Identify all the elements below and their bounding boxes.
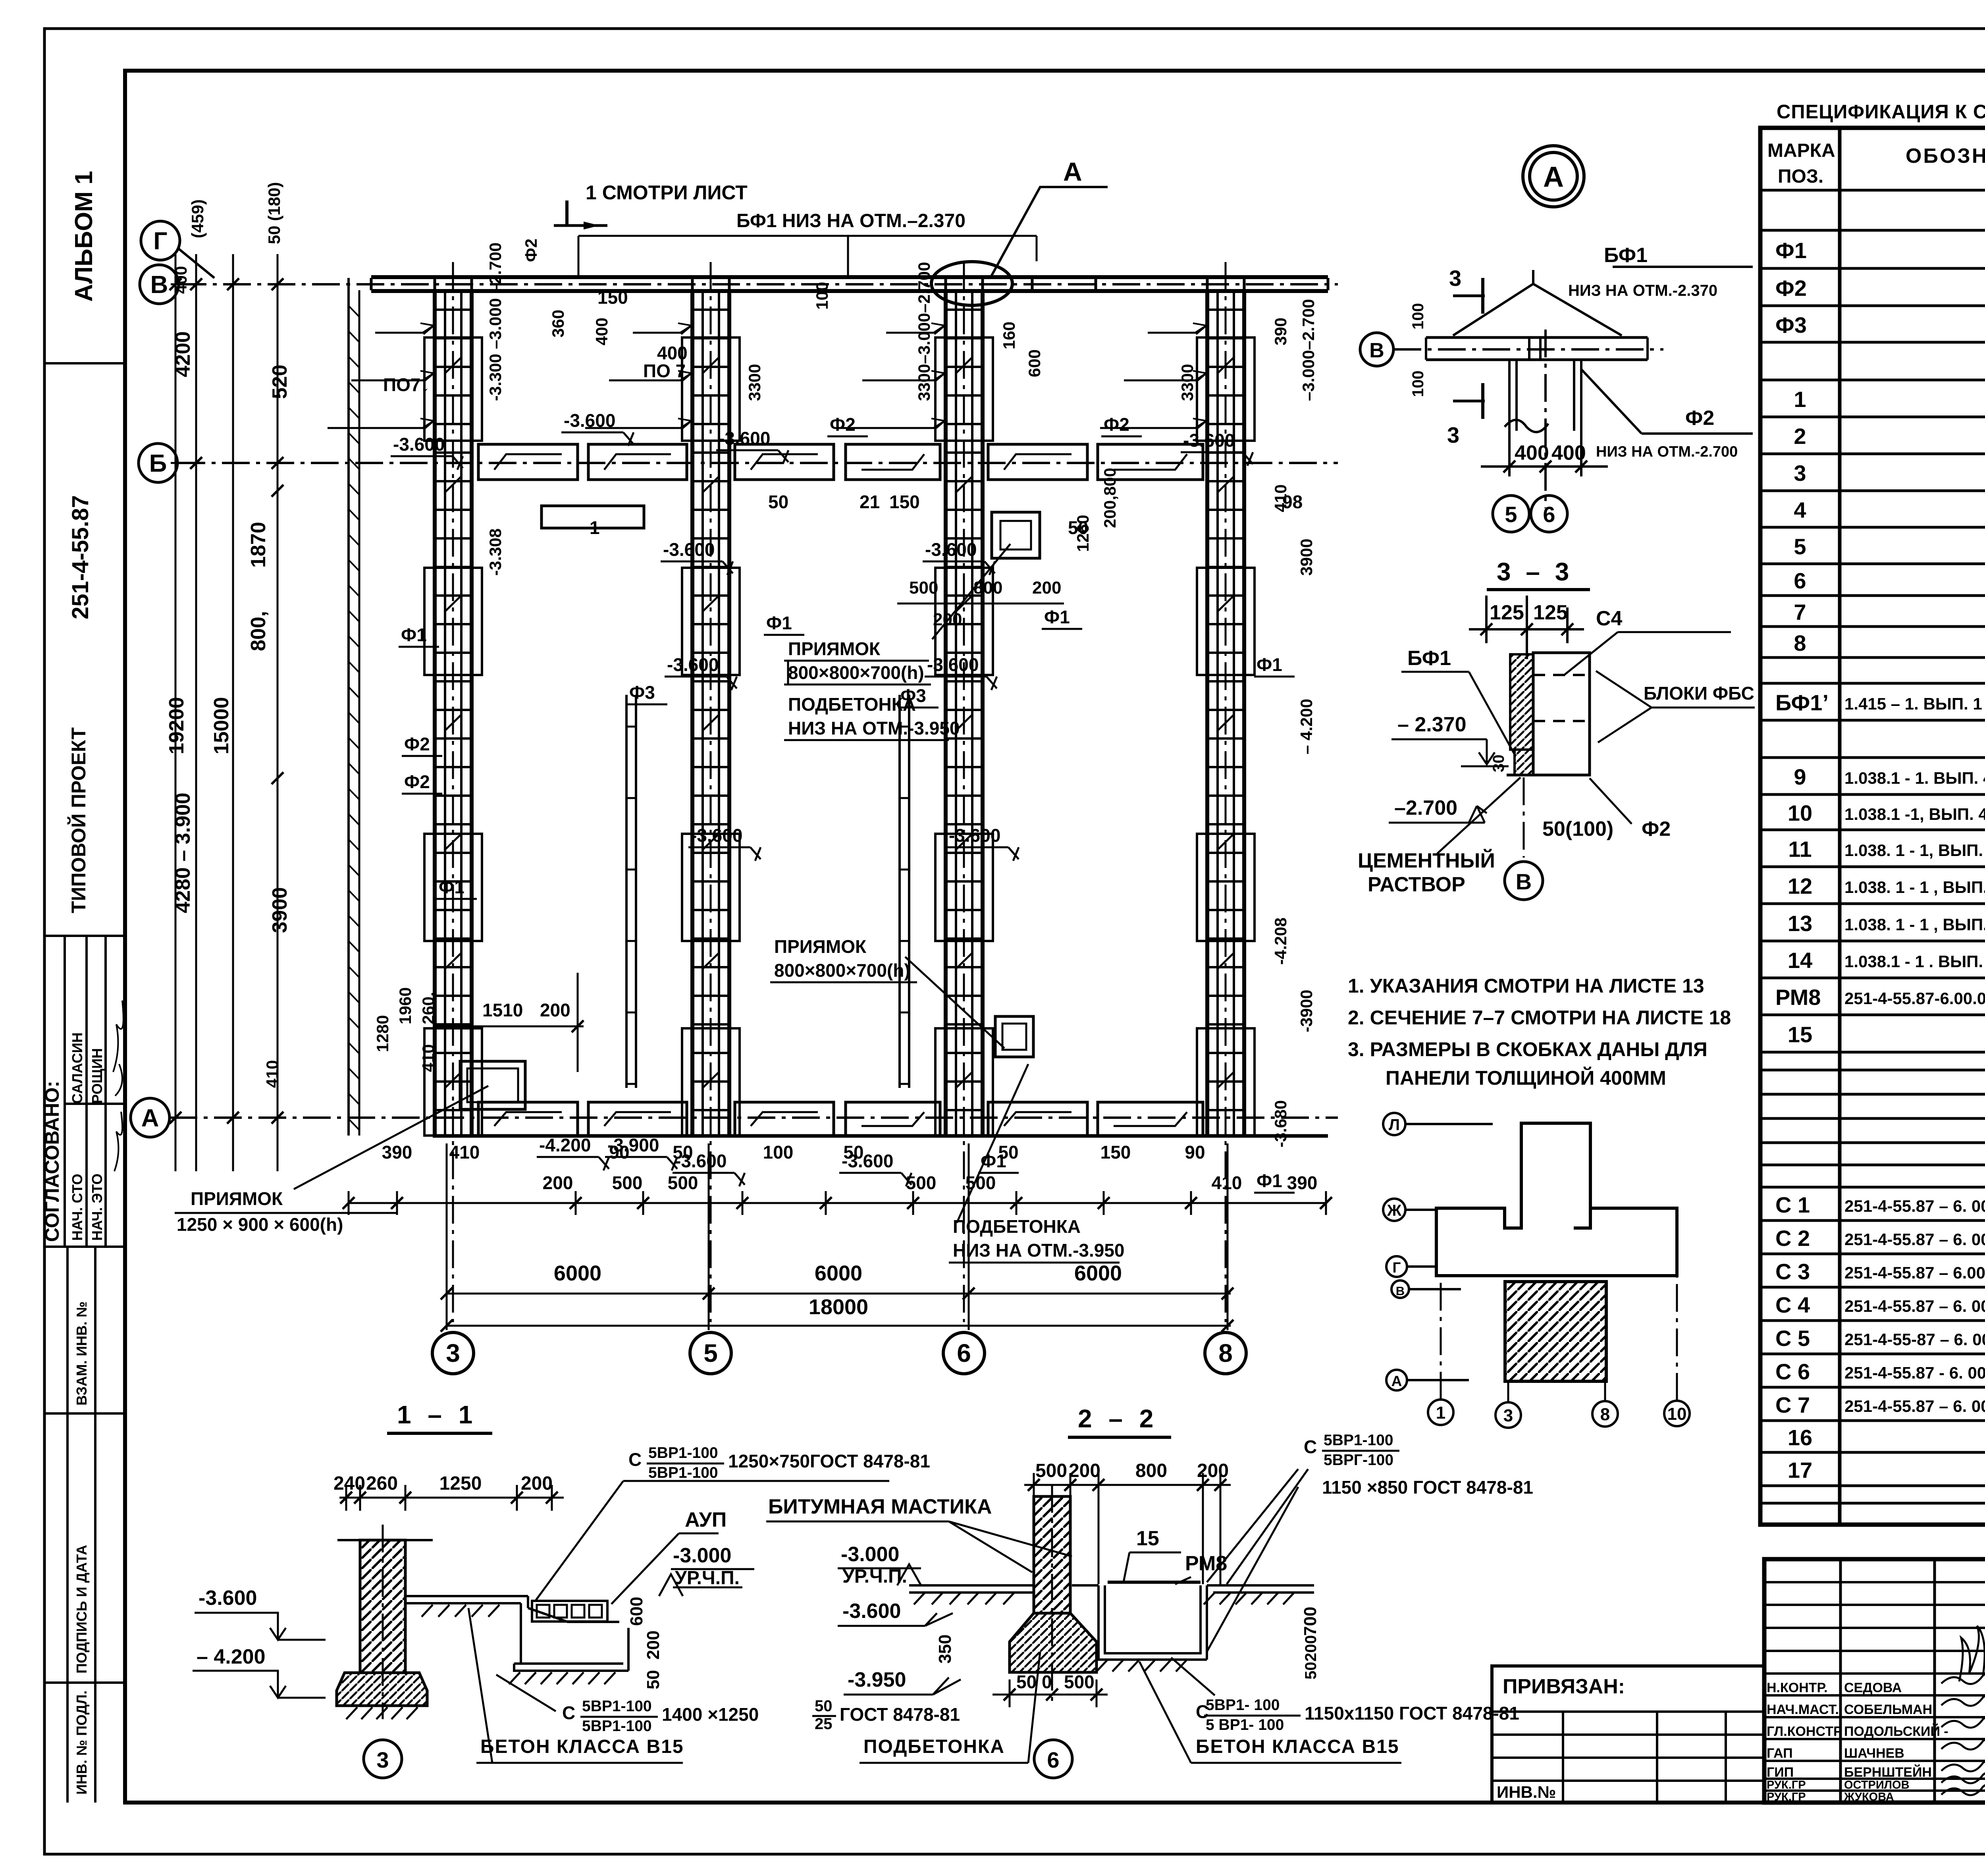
svg-text:Ж: Ж: [1387, 1202, 1402, 1219]
svg-text:1: 1: [1436, 1403, 1445, 1423]
svg-text:С4: С4: [1596, 607, 1623, 630]
svg-text:400: 400: [657, 343, 688, 363]
svg-text:410: 410: [1212, 1172, 1242, 1193]
svg-text:3: 3: [376, 1747, 389, 1772]
svg-text:– 4.200: – 4.200: [1297, 699, 1316, 754]
svg-text:13: 13: [1788, 911, 1812, 936]
svg-text:400: 400: [172, 266, 190, 294]
svg-text:50: 50: [644, 1670, 663, 1689]
svg-text:200: 200: [644, 1631, 663, 1660]
svg-text:Ф3: Ф3: [1775, 312, 1807, 337]
svg-text:500: 500: [1035, 1460, 1067, 1481]
svg-text:100: 100: [1409, 303, 1427, 330]
svg-text:15000: 15000: [210, 697, 233, 754]
svg-text:125: 125: [1533, 601, 1568, 624]
svg-text:–3.000–2.700: –3.000–2.700: [1299, 299, 1318, 401]
svg-text:1: 1: [590, 517, 600, 538]
svg-text:800,: 800,: [247, 611, 270, 651]
svg-text:1280: 1280: [373, 1015, 392, 1052]
svg-text:50 (180): 50 (180): [265, 182, 283, 244]
svg-text:-3.600: -3.600: [691, 825, 742, 846]
svg-text:251-4-55.87 – 6. 00. 00.33 00: 251-4-55.87 – 6. 00. 00.33 00: [1844, 1230, 1985, 1249]
svg-text:800×800×700(h): 800×800×700(h): [774, 960, 910, 981]
svg-text:700: 700: [1301, 1607, 1320, 1636]
svg-text:СЕДОВА: СЕДОВА: [1844, 1680, 1902, 1695]
svg-text:1250×750ГОСТ 8478-81: 1250×750ГОСТ 8478-81: [728, 1451, 930, 1471]
svg-text:БЕРНШТЕЙН: БЕРНШТЕЙН: [1844, 1764, 1932, 1780]
svg-text:50(100): 50(100): [1542, 817, 1613, 841]
svg-text:-3.950: -3.950: [848, 1668, 906, 1691]
svg-text:-3.000: -3.000: [841, 1543, 899, 1566]
svg-text:251-4-55.87 - 6. 00. 00.38 00: 251-4-55.87 - 6. 00. 00.38 00: [1844, 1363, 1985, 1382]
svg-text:17: 17: [1788, 1458, 1812, 1483]
svg-text:– 2.370: – 2.370: [1397, 713, 1467, 736]
svg-text:Ф1: Ф1: [1775, 238, 1807, 263]
svg-text:УР.Ч.П.: УР.Ч.П.: [675, 1568, 740, 1589]
svg-text:5: 5: [703, 1339, 718, 1367]
svg-text:1510: 1510: [482, 1000, 523, 1020]
svg-text:50: 50: [815, 1697, 833, 1715]
svg-text:800: 800: [973, 578, 1002, 598]
svg-text:50: 50: [1068, 517, 1088, 538]
svg-text:В: В: [150, 271, 168, 299]
svg-text:ЖУКОВА: ЖУКОВА: [1844, 1791, 1894, 1803]
svg-text:12: 12: [1788, 873, 1812, 898]
svg-text:1. УКАЗАНИЯ СМОТРИ НА ЛИСТЕ: 1. УКАЗАНИЯ СМОТРИ НА ЛИСТЕ 13: [1348, 975, 1704, 997]
svg-text:6000: 6000: [1074, 1261, 1122, 1285]
svg-text:-4.208: -4.208: [1271, 918, 1290, 965]
svg-text:30: 30: [1490, 755, 1507, 773]
svg-text:3: 3: [1503, 1406, 1513, 1425]
svg-text:БФ1 НИЗ НА ОТМ.–2.370: БФ1 НИЗ НА ОТМ.–2.370: [736, 210, 966, 231]
svg-text:800: 800: [1135, 1460, 1167, 1481]
svg-text:200: 200: [1032, 578, 1061, 598]
svg-text:ЦЕМЕНТНЫЙ: ЦЕМЕНТНЫЙ: [1358, 849, 1495, 872]
svg-text:ТИПОВОЙ ПРОЕКТ: ТИПОВОЙ ПРОЕКТ: [67, 727, 90, 913]
svg-text:БФ1’: БФ1’: [1775, 690, 1829, 715]
svg-text:100: 100: [1409, 370, 1427, 397]
svg-text:НАЧ. СТО: НАЧ. СТО: [69, 1174, 85, 1241]
svg-text:-3.600: -3.600: [719, 428, 770, 449]
svg-text:3 – 3: 3 – 3: [1497, 557, 1573, 586]
svg-text:ПАНЕЛИ ТОЛЩИНОЙ 400ММ: ПАНЕЛИ ТОЛЩИНОЙ 400ММ: [1386, 1066, 1666, 1089]
svg-text:251-4-55-87 – 6. 00. 00.36. 00: 251-4-55-87 – 6. 00. 00.36. 00: [1844, 1330, 1985, 1349]
svg-text:1150х1150 ГОСТ 8478-81: 1150х1150 ГОСТ 8478-81: [1305, 1703, 1519, 1724]
svg-text:251-4-55.87 – 6. 00. 00.30. 00: 251-4-55.87 – 6. 00. 00.30. 00: [1844, 1197, 1985, 1215]
svg-text:БЕТОН КЛАССА В15: БЕТОН КЛАССА В15: [480, 1736, 684, 1757]
svg-text:-3.600: -3.600: [842, 1600, 901, 1623]
svg-text:390: 390: [382, 1142, 412, 1163]
svg-text:251-4-55.87 – 6. 00. 00.35. 00: 251-4-55.87 – 6. 00. 00.35. 00: [1844, 1297, 1985, 1315]
svg-text:БФ1: БФ1: [1604, 244, 1648, 267]
svg-text:РОЩИН: РОЩИН: [89, 1048, 105, 1104]
svg-text:200: 200: [521, 1473, 553, 1494]
svg-text:ОСТРИЛОВ: ОСТРИЛОВ: [1844, 1779, 1910, 1791]
svg-text:150: 150: [597, 287, 628, 308]
svg-text:600: 600: [627, 1597, 646, 1626]
svg-text:А: А: [1063, 157, 1082, 186]
svg-text:(459): (459): [188, 199, 207, 238]
svg-text:Ф1: Ф1: [766, 613, 792, 633]
svg-text:160: 160: [1000, 322, 1018, 349]
svg-text:-3.600: -3.600: [198, 1587, 257, 1610]
svg-text:251-4-55.87-6.00.00.13. 00: 251-4-55.87-6.00.00.13. 00: [1844, 989, 1985, 1008]
svg-text:А: А: [1543, 161, 1564, 193]
svg-text:ШАЧНЕВ: ШАЧНЕВ: [1844, 1746, 1904, 1761]
svg-text:Ф2: Ф2: [522, 239, 540, 262]
svg-text:10: 10: [1667, 1404, 1687, 1424]
svg-text:-3.600: -3.600: [949, 825, 1000, 846]
svg-text:251-4-55.87 – 6. 00. 00. 37. 0: 251-4-55.87 – 6. 00. 00. 37. 00: [1844, 1397, 1985, 1415]
svg-text:БЛОКИ ФБС: БЛОКИ ФБС: [1644, 683, 1754, 704]
svg-text:Н.КОНТР.: Н.КОНТР.: [1767, 1680, 1828, 1695]
svg-text:200: 200: [1197, 1460, 1229, 1481]
svg-text:Ф2: Ф2: [1775, 276, 1807, 301]
svg-text:200: 200: [1069, 1460, 1100, 1481]
svg-text:3900: 3900: [268, 887, 291, 933]
svg-text:МАРКА: МАРКА: [1767, 140, 1835, 161]
svg-text:С: С: [1304, 1436, 1317, 1457]
svg-text:С 3: С 3: [1775, 1259, 1810, 1284]
svg-text:50: 50: [768, 492, 788, 512]
svg-text:Ф1: Ф1: [401, 625, 427, 645]
svg-text:2 – 2: 2 – 2: [1078, 1404, 1158, 1433]
svg-text:ПО 7: ПО 7: [643, 361, 686, 381]
svg-text:410: 410: [263, 1060, 281, 1088]
svg-text:100: 100: [763, 1142, 794, 1163]
svg-text:-4.200: -4.200: [539, 1135, 591, 1155]
svg-text:390: 390: [1287, 1172, 1318, 1193]
svg-text:19200: 19200: [165, 697, 188, 754]
svg-text:3. РАЗМЕРЫ В СКОБКАХ ДАНЫ Д: 3. РАЗМЕРЫ В СКОБКАХ ДАНЫ ДЛЯ: [1348, 1038, 1707, 1060]
svg-text:50: 50: [1302, 1662, 1320, 1680]
svg-text:90: 90: [1185, 1142, 1205, 1163]
svg-text:5ВРГ-100: 5ВРГ-100: [1324, 1452, 1393, 1469]
svg-text:5: 5: [1794, 534, 1806, 559]
svg-text:ГИП: ГИП: [1767, 1765, 1794, 1780]
svg-text:НИЗ НА ОТМ.-3.950: НИЗ НА ОТМ.-3.950: [788, 718, 960, 738]
svg-text:260,: 260,: [419, 992, 437, 1024]
svg-text:-3.300 –3.000 –2.700: -3.300 –3.000 –2.700: [486, 243, 505, 401]
svg-text:В: В: [1516, 869, 1532, 894]
svg-text:Б: Б: [149, 450, 167, 477]
svg-text:800×800×700(h): 800×800×700(h): [788, 662, 924, 683]
svg-text:ИНВ.№: ИНВ.№: [1497, 1783, 1556, 1801]
svg-text:125: 125: [1490, 601, 1524, 624]
svg-text:-3.600: -3.600: [564, 410, 615, 431]
svg-text:Ф1: Ф1: [439, 877, 464, 897]
svg-text:Ф2: Ф2: [1104, 414, 1129, 435]
svg-text:-3.600: -3.600: [663, 539, 715, 560]
svg-text:16: 16: [1788, 1425, 1812, 1450]
svg-text:3: 3: [1449, 266, 1461, 291]
svg-text:11: 11: [1788, 837, 1812, 862]
svg-text:-3.308: -3.308: [486, 528, 505, 576]
svg-text:С 6: С 6: [1775, 1359, 1810, 1384]
svg-text:Г: Г: [1393, 1259, 1401, 1276]
svg-text:А: А: [1391, 1373, 1402, 1389]
svg-text:Ф2: Ф2: [404, 771, 430, 792]
svg-text:-3.600: -3.600: [393, 434, 445, 455]
svg-text:САЛАСИН: САЛАСИН: [69, 1032, 85, 1104]
svg-text:НИЗ НА ОТМ.-3.950: НИЗ НА ОТМ.-3.950: [953, 1240, 1125, 1261]
svg-text:АЛЬБОМ 1: АЛЬБОМ 1: [70, 171, 98, 302]
svg-text:НАЧ.МАСТ.: НАЧ.МАСТ.: [1767, 1702, 1839, 1717]
svg-text:С 4: С 4: [1775, 1292, 1810, 1317]
svg-text:1: 1: [1794, 387, 1806, 412]
svg-text:НИЗ НА ОТМ.-2.700: НИЗ НА ОТМ.-2.700: [1596, 443, 1738, 460]
svg-text:98: 98: [1282, 492, 1303, 512]
svg-text:6000: 6000: [815, 1261, 862, 1285]
svg-text:ГЛ.КОНСТР: ГЛ.КОНСТР: [1767, 1724, 1842, 1739]
svg-text:-3.600: -3.600: [927, 654, 979, 675]
svg-text:8: 8: [1218, 1339, 1233, 1367]
svg-text:С 7: С 7: [1775, 1392, 1810, 1417]
svg-text:А: А: [141, 1105, 159, 1132]
svg-text:8: 8: [1600, 1405, 1610, 1424]
svg-text:2. СЕЧЕНИЕ 7–7 СМОТРИ НА Л: 2. СЕЧЕНИЕ 7–7 СМОТРИ НА ЛИСТЕ 18: [1348, 1006, 1731, 1029]
svg-text:-3.600: -3.600: [842, 1151, 893, 1171]
svg-text:410: 410: [419, 1044, 437, 1072]
svg-text:ПРИЯМОК: ПРИЯМОК: [191, 1188, 283, 1209]
svg-text:3300–3.000–2.700: 3300–3.000–2.700: [915, 262, 933, 401]
svg-text:400: 400: [592, 318, 611, 345]
svg-text:1870: 1870: [247, 522, 270, 568]
svg-text:1.038.1 - 1. ВЫП. 4: 1.038.1 - 1. ВЫП. 4: [1844, 769, 1985, 787]
svg-text:Ф3: Ф3: [629, 682, 655, 703]
svg-text:500: 500: [1064, 1672, 1095, 1692]
svg-text:ПОДБЕТОНКА: ПОДБЕТОНКА: [953, 1216, 1081, 1237]
svg-text:РУК.ГР: РУК.ГР: [1767, 1791, 1806, 1803]
svg-text:АУП: АУП: [685, 1508, 727, 1531]
svg-text:В: В: [1369, 339, 1384, 362]
svg-text:-3.600: -3.600: [667, 654, 719, 675]
svg-text:200: 200: [543, 1172, 573, 1193]
svg-text:3: 3: [1447, 422, 1459, 447]
svg-text:НИЗ НА ОТМ.-2.370: НИЗ НА ОТМ.-2.370: [1568, 282, 1717, 299]
svg-text:ПОДБЕТОНКА: ПОДБЕТОНКА: [863, 1736, 1005, 1757]
svg-text:5ВР1-100: 5ВР1-100: [582, 1718, 652, 1735]
svg-text:10: 10: [1788, 800, 1812, 825]
svg-text:7: 7: [1794, 600, 1806, 625]
svg-text:– 4.200: – 4.200: [197, 1645, 266, 1668]
svg-text:ПОЗ.: ПОЗ.: [1778, 166, 1823, 187]
svg-text:В: В: [1396, 1284, 1405, 1298]
svg-text:2: 2: [1794, 424, 1806, 449]
svg-text:400: 400: [1551, 442, 1586, 465]
svg-text:1.038.1 -1, ВЫП. 4: 1.038.1 -1, ВЫП. 4: [1844, 805, 1985, 823]
svg-text:–2.700: –2.700: [1394, 796, 1457, 819]
svg-text:-3.600: -3.600: [675, 1151, 727, 1171]
svg-text:260: 260: [366, 1473, 398, 1494]
svg-text:ИНВ. № ПОДЛ.: ИНВ. № ПОДЛ.: [73, 1691, 90, 1795]
svg-text:Ф1: Ф1: [1044, 607, 1070, 627]
svg-text:СПЕЦИФИКАЦИЯ К СХЕМЕ РАСПОЛ: СПЕЦИФИКАЦИЯ К СХЕМЕ РАСПОЛОЖЕНИЯ ЭЛЕМЕН…: [1777, 101, 1985, 123]
svg-text:18000: 18000: [809, 1295, 868, 1319]
svg-text:350: 350: [935, 1635, 955, 1664]
svg-text:ПО7↓: ПО7↓: [383, 374, 430, 395]
svg-text:С 1: С 1: [1775, 1192, 1810, 1217]
svg-text:4280 – 3.900: 4280 – 3.900: [172, 792, 195, 913]
svg-text:1250: 1250: [439, 1473, 482, 1494]
svg-text:Ф2: Ф2: [1685, 407, 1714, 430]
svg-text:ПРИВЯЗАН:: ПРИВЯЗАН:: [1503, 1675, 1625, 1698]
svg-text:1.415 – 1. ВЫП. 1: 1.415 – 1. ВЫП. 1: [1844, 694, 1982, 713]
svg-text:21: 21: [860, 492, 880, 512]
svg-text:251-4-55.87: 251-4-55.87: [67, 495, 93, 619]
svg-text:-3.600: -3.600: [925, 539, 977, 560]
svg-text:15: 15: [1788, 1022, 1812, 1047]
svg-text:-3.680: -3.680: [1271, 1100, 1290, 1147]
svg-text:3: 3: [1794, 461, 1806, 486]
svg-text:50 0: 50 0: [1016, 1672, 1052, 1692]
svg-text:С 5: С 5: [1775, 1326, 1810, 1351]
svg-text:500: 500: [909, 578, 938, 598]
svg-text:СОГЛАСОВАНО:: СОГЛАСОВАНО:: [41, 1081, 63, 1242]
svg-text:150: 150: [889, 492, 920, 512]
svg-text:8: 8: [1794, 630, 1806, 656]
svg-text:Ф1: Ф1: [1257, 1170, 1282, 1191]
svg-text:400: 400: [1515, 442, 1549, 465]
svg-text:150: 150: [1100, 1142, 1131, 1163]
svg-text:-3.000: -3.000: [673, 1544, 731, 1567]
svg-text:-3.600: -3.600: [1183, 430, 1235, 451]
svg-text:200: 200: [1302, 1635, 1320, 1662]
svg-text:600: 600: [1025, 349, 1044, 377]
svg-text:Ф2: Ф2: [404, 734, 430, 754]
svg-text:БЕТОН КЛАССА В15: БЕТОН КЛАССА В15: [1196, 1736, 1399, 1757]
svg-text:РУК.ГР: РУК.ГР: [1767, 1779, 1806, 1791]
svg-text:ПОДБЕТОНКА: ПОДБЕТОНКА: [788, 694, 916, 715]
svg-text:6: 6: [957, 1339, 971, 1367]
svg-text:4200: 4200: [172, 331, 195, 377]
svg-text:1 – 1: 1 – 1: [397, 1400, 477, 1429]
svg-text:С: С: [562, 1702, 575, 1723]
svg-text:6: 6: [1543, 502, 1555, 527]
svg-text:500: 500: [966, 1172, 996, 1193]
svg-text:Ф2: Ф2: [830, 414, 856, 435]
svg-text:500: 500: [668, 1172, 698, 1193]
svg-text:1.038.1 - 1 . ВЫП. 4: 1.038.1 - 1 . ВЫП. 4: [1844, 952, 1985, 971]
svg-text:Г: Г: [153, 228, 167, 255]
svg-text:5 ВР1- 100: 5 ВР1- 100: [1206, 1716, 1284, 1733]
svg-text:5ВР1-100: 5ВР1-100: [648, 1444, 718, 1461]
svg-text:240: 240: [333, 1473, 365, 1494]
svg-text:-3900: -3900: [1297, 990, 1316, 1032]
svg-text:15: 15: [1136, 1527, 1159, 1550]
svg-text:ПРИЯМОК: ПРИЯМОК: [788, 638, 881, 659]
svg-text:520: 520: [268, 364, 291, 399]
svg-text:3900: 3900: [1297, 539, 1316, 576]
svg-text:360: 360: [549, 310, 567, 337]
svg-text:ПРИЯМОК: ПРИЯМОК: [774, 936, 867, 957]
svg-text:НАЧ. ЭТО: НАЧ. ЭТО: [89, 1174, 105, 1241]
svg-text:500: 500: [612, 1172, 643, 1193]
svg-text:БФ1: БФ1: [1407, 647, 1451, 670]
svg-text:1.038. 1 - 1 , ВЫП.2: 1.038. 1 - 1 , ВЫП.2: [1844, 878, 1985, 897]
svg-text:1960: 1960: [396, 987, 414, 1024]
svg-text:БИТУМНАЯ МАСТИКА: БИТУМНАЯ МАСТИКА: [768, 1495, 992, 1518]
svg-text:РМ8: РМ8: [1775, 985, 1821, 1010]
svg-text:3300: 3300: [745, 364, 764, 401]
svg-text:ПОДОЛЬСКИЙ -: ПОДОЛЬСКИЙ -: [1844, 1724, 1948, 1739]
svg-text:-3.900: -3.900: [607, 1135, 659, 1155]
svg-text:100: 100: [813, 282, 831, 310]
svg-text:Ф2: Ф2: [1642, 817, 1671, 841]
svg-text:1400 ×1250: 1400 ×1250: [662, 1704, 759, 1725]
svg-text:1 СМОТРИ ЛИСТ: 1 СМОТРИ ЛИСТ: [586, 181, 748, 204]
svg-text:3: 3: [446, 1339, 460, 1367]
svg-text:6: 6: [1047, 1747, 1059, 1772]
svg-text:ПОДПИСЬ И ДАТА: ПОДПИСЬ И ДАТА: [73, 1545, 90, 1674]
svg-text:5ВР1-100: 5ВР1-100: [1324, 1432, 1393, 1449]
svg-text:ВЗАМ. ИНВ. №: ВЗАМ. ИНВ. №: [73, 1301, 90, 1406]
svg-text:25: 25: [815, 1715, 833, 1733]
svg-text:ГОСТ 8478-81: ГОСТ 8478-81: [840, 1704, 960, 1725]
svg-text:200: 200: [540, 1000, 570, 1020]
svg-text:5ВР1-100: 5ВР1-100: [648, 1464, 718, 1481]
svg-text:5: 5: [1505, 502, 1517, 527]
svg-text:С: С: [628, 1449, 642, 1470]
svg-text:410: 410: [449, 1142, 480, 1163]
svg-text:3300: 3300: [1178, 364, 1197, 401]
svg-text:390: 390: [1271, 318, 1290, 345]
svg-text:6000: 6000: [554, 1261, 601, 1285]
svg-text:251-4-55.87 – 6.00.00. 34 00: 251-4-55.87 – 6.00.00. 34 00: [1844, 1263, 1985, 1282]
svg-text:СОБЕЛЬМАН: СОБЕЛЬМАН: [1844, 1702, 1932, 1717]
svg-text:200,800: 200,800: [1100, 468, 1119, 528]
svg-text:5ВР1- 100: 5ВР1- 100: [1206, 1697, 1280, 1714]
svg-text:ГАП: ГАП: [1767, 1746, 1793, 1761]
svg-text:Ф1: Ф1: [1257, 654, 1282, 675]
svg-text:Л: Л: [1389, 1116, 1400, 1134]
svg-text:1.038. 1 - 1 , ВЫП.2: 1.038. 1 - 1 , ВЫП.2: [1844, 915, 1985, 934]
svg-text:5ВР1-100: 5ВР1-100: [582, 1698, 652, 1715]
svg-text:1.038. 1 - 1, ВЫП. 4: 1.038. 1 - 1, ВЫП. 4: [1844, 841, 1985, 860]
svg-text:9: 9: [1794, 764, 1806, 789]
svg-text:РАСТВОР: РАСТВОР: [1368, 873, 1465, 896]
svg-text:ОБОЗНАЧЕНИЕ: ОБОЗНАЧЕНИЕ: [1906, 145, 1985, 168]
svg-text:С 2: С 2: [1775, 1226, 1810, 1251]
svg-text:1250 × 900 × 600(h): 1250 × 900 × 600(h): [177, 1214, 343, 1235]
svg-text:6: 6: [1794, 568, 1806, 593]
svg-text:4: 4: [1794, 497, 1806, 523]
svg-text:1150 ×850 ГОСТ 8478-81: 1150 ×850 ГОСТ 8478-81: [1322, 1477, 1533, 1498]
svg-text:14: 14: [1788, 948, 1812, 973]
